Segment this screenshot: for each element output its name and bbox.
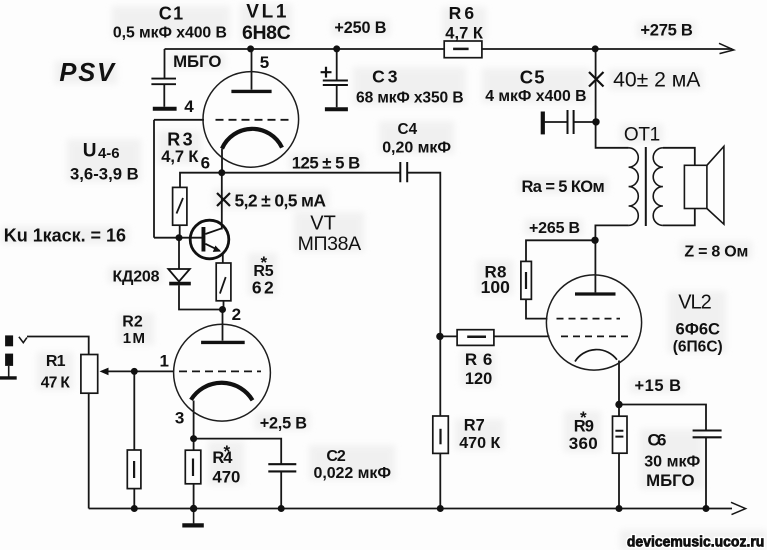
node junction: R7 / ground rail [437, 505, 444, 512]
svg-text:МП38А: МП38А [298, 233, 362, 255]
svg-text:R3: R3 [167, 130, 192, 150]
svg-text:+250 В: +250 В [334, 19, 386, 37]
wire R4 leads [193, 439, 195, 509]
svg-text:47 К: 47 К [41, 375, 71, 392]
wire VL1a cathode lead pin6 [221, 149, 223, 173]
wire R1 wiper arrow line [106, 370, 134, 372]
transistor VT (MP38A) [190, 220, 229, 259]
svg-text:VL2: VL2 [678, 292, 712, 314]
wire R1 bottom to ground rail [88, 393, 90, 508]
svg-text:470: 470 [212, 467, 240, 486]
wire C4 to right rail [407, 173, 440, 416]
capacitor C2 [268, 464, 296, 471]
svg-text:*: * [261, 253, 268, 272]
wire VL1a pin5 anode lead [251, 49, 253, 90]
wire +265V node to VL2 anode [594, 240, 596, 292]
resistor R6-120 [457, 330, 494, 346]
tube VL1b bottom triode [174, 324, 271, 421]
X mark anode current [589, 72, 604, 87]
wire VL1b cathode lead [193, 401, 195, 439]
wire R2 bottom lead [133, 489, 135, 509]
ground [193, 509, 195, 524]
svg-text:С4: С4 [398, 121, 418, 138]
svg-text:4-6: 4-6 [98, 145, 120, 162]
svg-text:100: 100 [481, 277, 511, 297]
wire VL1a grid pin4 entry [154, 119, 204, 121]
wire C3 lower lead [336, 85, 338, 107]
svg-text:6Н8С: 6Н8С [242, 22, 291, 44]
svg-text:68 мкФ х350 В: 68 мкФ х350 В [356, 90, 464, 107]
svg-text:4,7 К: 4,7 К [161, 148, 199, 166]
svg-text:30 мкФ: 30 мкФ [644, 453, 700, 471]
svg-text:4,7 К: 4,7 К [445, 25, 484, 43]
svg-text:4 мкФ х400 В: 4 мкФ х400 В [485, 88, 586, 105]
node junction: R4, ground symbol / ground rail [190, 505, 197, 512]
svg-text:*: * [580, 408, 587, 427]
svg-text:1 М: 1 М [123, 330, 145, 347]
X mark collector current [217, 193, 230, 206]
node junction: VL2 cathode / R9 node [615, 401, 622, 408]
wire pin2 node to VL1b anode [222, 310, 224, 341]
tube VL2 output pentode [546, 275, 641, 370]
svg-text:120: 120 [465, 370, 492, 388]
svg-text:Ra = 5 КОм: Ra = 5 КОм [522, 178, 605, 196]
wire right rail below R7 to ground rail [439, 453, 441, 508]
svg-text:1: 1 [160, 352, 169, 371]
node junction: HV branch / +275V rail [592, 45, 599, 52]
svg-text:6Ф6С: 6Ф6С [676, 319, 721, 338]
wire pin6 node to R3 [180, 173, 222, 188]
svg-text:R2: R2 [122, 314, 143, 331]
wire cathode node to C2 [194, 439, 282, 464]
resistor R1 potentiometer [81, 355, 98, 394]
resistor R3 [173, 187, 187, 225]
svg-text:0,5 мкФ х400 В: 0,5 мкФ х400 В [113, 25, 227, 42]
wire R8 to VL2 screen grid [526, 299, 548, 318]
wire R6-120 left lead [440, 335, 457, 337]
resistor R5 [216, 263, 231, 301]
wire R3 bottom to base node [179, 225, 181, 238]
svg-text:(6П6С): (6П6С) [673, 338, 723, 355]
svg-text:devicemusic.ucoz.ru: devicemusic.ucoz.ru [627, 535, 764, 550]
node junction: +265V node [591, 237, 598, 244]
svg-text:VL1: VL1 [246, 2, 287, 23]
node junction: C5 / OT1 primary top node [592, 118, 599, 125]
svg-text:U: U [83, 141, 97, 162]
node junction: VL1 pin6 cathode node [218, 169, 225, 176]
wire ground rail [89, 508, 732, 510]
wire R9 leads [618, 405, 620, 509]
svg-text:+275 В: +275 В [640, 21, 692, 40]
transformer OT1 [629, 147, 663, 226]
node junction: R2 / ground rail [131, 505, 138, 512]
node junction: R6(120) / right rail [436, 333, 443, 340]
svg-text:2: 2 [232, 305, 241, 324]
wire right HV branch down to C5 node [595, 49, 597, 122]
wire transformer secondary top to speaker [663, 148, 695, 166]
svg-text:R7: R7 [464, 417, 485, 435]
resistor R2 [127, 450, 141, 489]
svg-text:5: 5 [260, 53, 269, 72]
wire C5 internal leads [545, 121, 593, 123]
svg-text:С5: С5 [520, 67, 545, 88]
svg-text:Z = 8 Ом: Z = 8 Ом [684, 244, 748, 261]
svg-text:360: 360 [569, 434, 598, 453]
tube VL1 top triode [203, 72, 299, 168]
svg-text:R 6: R 6 [465, 350, 492, 369]
wire transistor emitter lead [222, 254, 224, 264]
svg-text:С1: С1 [159, 3, 183, 23]
arrow top right +275V [719, 43, 734, 53]
wire pin6 node to C4 [222, 172, 400, 174]
watermark [627, 535, 764, 550]
arrowhead R1 wiper [100, 368, 109, 376]
wire diode cathode to pin2 node [179, 285, 223, 309]
wire diode anode lead [178, 238, 180, 269]
svg-text:125 ± 5 В: 125 ± 5 В [292, 153, 361, 172]
resistor R7 [433, 416, 449, 453]
svg-text:5,2 ± 0,5 мА: 5,2 ± 0,5 мА [235, 191, 327, 211]
svg-text:С6: С6 [648, 431, 667, 450]
svg-text:470 К: 470 К [459, 434, 500, 452]
wire left rail grid to base node [153, 120, 155, 238]
svg-text:МБГО: МБГО [646, 471, 694, 490]
svg-text:PSV: PSV [59, 59, 116, 87]
wire R5 bottom to pin2 node [223, 301, 225, 310]
svg-text:+2,5 В: +2,5 В [260, 414, 308, 432]
capacitor C4 [400, 162, 407, 182]
node junction: C3 / +250V rail [333, 45, 340, 52]
wire wiper node to VL1b grid [134, 370, 174, 372]
input jack [0, 335, 27, 378]
wire wiper node down to R2 [133, 371, 135, 450]
wire VL2 cathode lead [618, 361, 620, 405]
svg-text:4: 4 [184, 97, 194, 116]
capacitor C1 [151, 79, 176, 109]
node junction: R9 / ground rail [616, 505, 623, 512]
wire transformer secondary bottom to speaker [663, 209, 695, 226]
wire R6-120 right lead to VL2 grid [494, 335, 550, 337]
svg-text:МБГО: МБГО [173, 52, 221, 71]
svg-text:0,20 мкФ: 0,20 мкФ [382, 139, 451, 156]
node dots [131, 45, 710, 512]
svg-text:R1: R1 [46, 353, 66, 370]
wire C1 lower lead [163, 85, 165, 107]
resistor R8 [521, 261, 532, 299]
node junction: C6 / ground rail [703, 505, 710, 512]
wire transistor collector [221, 173, 223, 230]
wire transformer primary bottom to +265V node [595, 225, 628, 240]
wire C1 top lead [164, 49, 166, 78]
svg-text:6: 6 [201, 154, 210, 173]
node junction: C2 / ground rail [278, 505, 285, 512]
wire C6 bottom lead [705, 437, 707, 508]
node junction: VL1 pin2 anode / R5 node [219, 306, 226, 313]
speaker [684, 146, 724, 224]
svg-text:3,6-3,9 В: 3,6-3,9 В [70, 165, 139, 184]
resistor R9 [613, 416, 628, 453]
arrow ground rail right end [731, 502, 746, 514]
svg-text:Ku 1каск. = 16: Ku 1каск. = 16 [4, 226, 126, 246]
wire base node to transistor base [154, 237, 202, 239]
wire cathode node to C6 [619, 405, 706, 431]
svg-text:VT: VT [310, 212, 336, 234]
svg-text:+265 В: +265 В [529, 220, 580, 237]
svg-text:*: * [224, 442, 231, 461]
diode KD208 [168, 269, 191, 284]
node junction: R1 wiper / R2 node [131, 368, 138, 375]
capacitor C6 [693, 431, 722, 438]
capacitor C5 [543, 110, 574, 134]
svg-text:40± 2 мА: 40± 2 мА [613, 68, 701, 91]
wire top rail +250V/+275V [165, 48, 733, 50]
svg-text:3: 3 [175, 408, 184, 427]
node junction: VT base / R3 / VD node [176, 234, 183, 241]
svg-text:ОТ1: ОТ1 [624, 125, 660, 146]
svg-text:+15 В: +15 В [635, 377, 682, 395]
resistor R6 top (4,7K) [444, 41, 482, 58]
wire C2 bottom lead [280, 472, 282, 509]
wire +265V node to R8 [526, 240, 595, 261]
node junction: VL1 pin5 / +250V rail [247, 45, 254, 52]
svg-text:КД208: КД208 [113, 269, 160, 286]
wire C3 top lead [336, 49, 338, 80]
resistor R4 [185, 450, 201, 484]
wire input jack to R1 [27, 337, 89, 355]
svg-text:С2: С2 [326, 448, 345, 465]
wire C5 node to transformer primary top [596, 122, 629, 148]
svg-text:0,022 мкФ: 0,022 мкФ [314, 465, 392, 482]
node junction: VL1b cathode / R4 node [190, 435, 197, 442]
capacitor C3 [321, 67, 348, 109]
